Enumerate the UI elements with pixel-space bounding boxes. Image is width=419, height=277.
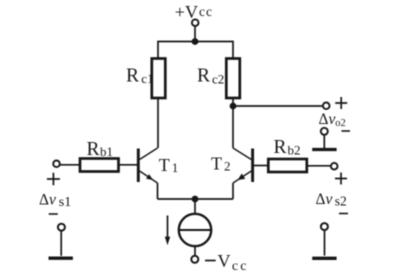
wire top rail [158,42,233,59]
wire T2 emitter down [232,183,234,199]
wire output node to vo2 terminal [233,105,322,107]
node: top rail junction [192,38,199,45]
terminal vs1 [53,161,60,168]
svg-text:s1: s1 [59,195,71,210]
wire T1 emitter down [157,183,159,199]
svg-text:R: R [87,139,100,160]
label T2 [211,154,231,174]
svg-text:b2: b2 [288,143,301,158]
arrow current direction [165,216,170,246]
wire T2 base to Rb2 [254,165,268,167]
terminal vs2 ground side [321,223,328,230]
label dvs2 [316,191,347,208]
resistor Rb1 [80,159,119,172]
svg-text:cc: cc [232,259,249,274]
label plus vs1 [47,173,60,185]
svg-text:1: 1 [172,160,179,175]
wire Rb1 to T1 base [119,164,138,166]
wire emitter node to current source [194,199,196,214]
terminal vo2 - [321,128,328,135]
label Rc1 [126,66,154,87]
wire emitter rail [158,198,234,200]
terminal vs1 ground side [58,224,65,231]
label plus vo2 [335,97,347,109]
label -Vcc minus [205,260,216,262]
svg-text:c2: c2 [212,72,224,87]
wire vo2 ground [323,135,325,148]
terminal +Vcc [192,19,199,26]
label minus vs1 [49,213,58,215]
wire vs2 ground [324,231,326,256]
node: T2 collector / output [230,103,237,110]
wire Rc2 to output node [232,98,234,148]
current source I [179,214,211,246]
svg-text:R: R [274,137,287,158]
label -Vcc [218,251,249,274]
label Rb2 [274,137,301,158]
label dvs1 [39,191,71,210]
wire Rb2 to vs2 terminal [307,165,331,167]
resistor Rb2 [268,159,307,172]
svg-text:cc: cc [199,4,213,19]
svg-text:o2: o2 [335,118,346,129]
svg-text:T: T [159,155,170,175]
svg-text:V: V [218,251,231,271]
transistor T1 [138,148,157,183]
resistor Rc1 [152,59,166,99]
svg-text:c1: c1 [141,71,153,86]
wire input terminal to Rb1 [60,164,80,166]
resistor Rc2 [226,59,240,99]
svg-text:Δv: Δv [319,111,336,128]
ground (vo2) [312,148,336,151]
label +Vcc [175,2,213,22]
svg-text:T: T [211,154,222,174]
label Rc2 [197,66,224,87]
label Rb1 [87,139,114,160]
terminal vs2 [331,163,338,170]
svg-text:R: R [197,66,210,87]
node: emitter junction [192,196,199,203]
label T1 [159,155,179,175]
terminal vo2 + [323,103,330,110]
label dvo2 [319,111,346,129]
svg-text:2: 2 [224,159,231,174]
ground (vs1) [49,257,73,260]
svg-text:R: R [126,66,139,87]
svg-text:s2: s2 [335,193,347,208]
ground (vs2) [312,257,336,260]
wire Vcc terminal to rail [194,27,196,42]
wire vs1 ground [60,231,62,256]
transistor T2 [233,148,253,183]
svg-text:b1: b1 [100,144,113,159]
svg-text:Δv: Δv [316,191,333,208]
label plus vs2 [335,173,347,185]
wire Rc1 to T1 collector [157,98,159,148]
svg-text:Δv: Δv [39,191,56,208]
label minus vs2 [339,213,348,215]
label minus vo2 [342,130,351,132]
terminal -Vcc [191,256,198,263]
wire current source to -Vcc terminal [194,246,196,255]
